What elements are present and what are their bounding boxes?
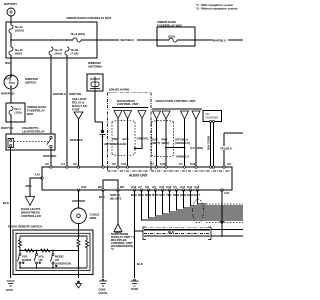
svg-text:(AUDIO/CH): (AUDIO/CH) bbox=[55, 262, 71, 266]
svg-text:(BLU) *2: (BLU) *2 bbox=[110, 197, 122, 201]
svg-text:CONTROLLER: CONTROLLER bbox=[21, 214, 42, 218]
svg-text:RED: RED bbox=[26, 184, 32, 188]
svg-text:*2: *2 bbox=[111, 247, 114, 251]
svg-text:A15: A15 bbox=[159, 185, 165, 189]
svg-text:DOWN: DOWN bbox=[22, 258, 31, 262]
svg-text:C16: C16 bbox=[160, 162, 166, 166]
svg-text:C4: C4 bbox=[150, 162, 154, 166]
svg-text:SWITCH: SWITCH bbox=[25, 81, 36, 85]
svg-text:BATTERY: BATTERY bbox=[4, 2, 17, 6]
svg-text:(20A): (20A) bbox=[55, 52, 62, 56]
svg-text:A7: A7 bbox=[138, 185, 142, 189]
svg-text:(BLU): (BLU) bbox=[162, 141, 170, 145]
svg-text:RADIO REMOTE SWITCH: RADIO REMOTE SWITCH bbox=[8, 225, 42, 229]
svg-text:A4: A4 bbox=[61, 162, 65, 166]
svg-text:A9: A9 bbox=[152, 185, 156, 189]
svg-text:No.9 (50A): No.9 (50A) bbox=[71, 32, 85, 36]
svg-text:A15: A15 bbox=[224, 191, 230, 195]
svg-text:(50A): (50A) bbox=[15, 52, 22, 56]
svg-text:A8: A8 bbox=[227, 162, 231, 166]
svg-text:CONTROL UNIT: CONTROL UNIT bbox=[117, 102, 139, 106]
svg-text:WHT/RED: WHT/RED bbox=[43, 154, 56, 158]
svg-text:C8: C8 bbox=[112, 162, 116, 166]
svg-text:A2: A2 bbox=[73, 162, 77, 166]
svg-text:DIN CORD: DIN CORD bbox=[206, 136, 210, 150]
svg-text:GRN/YEL: GRN/YEL bbox=[137, 137, 150, 141]
svg-text:YEL/BLU: YEL/BLU bbox=[220, 147, 232, 151]
svg-text:A10: A10 bbox=[35, 173, 41, 177]
svg-text:FUSE: FUSE bbox=[72, 108, 80, 112]
svg-text:A13: A13 bbox=[131, 185, 137, 189]
svg-text:ANTENNA: ANTENNA bbox=[88, 65, 103, 69]
svg-text:(100A): (100A) bbox=[15, 29, 24, 33]
svg-text:BLK: BLK bbox=[3, 201, 10, 205]
svg-text:C7: C7 bbox=[179, 162, 183, 166]
svg-text:BLK: BLK bbox=[137, 262, 144, 266]
svg-text:(LT GRN): (LT GRN) bbox=[191, 146, 203, 150]
svg-text:(15A): (15A) bbox=[15, 111, 22, 115]
svg-text:B6: B6 bbox=[98, 185, 102, 189]
svg-text:(GRN/BLU): (GRN/BLU) bbox=[175, 141, 190, 145]
svg-text:C10: C10 bbox=[121, 162, 127, 166]
svg-text:WHT: WHT bbox=[5, 61, 12, 65]
svg-text:LIGHTER RELAY: LIGHTER RELAY bbox=[22, 130, 45, 134]
svg-text:A18: A18 bbox=[194, 185, 200, 189]
svg-text:*2 : Without navigation system: *2 : Without navigation system bbox=[196, 7, 238, 11]
svg-text:CHANGER: CHANGER bbox=[206, 117, 219, 120]
svg-text:(PASSENGER'S): (PASSENGER'S) bbox=[111, 244, 133, 248]
svg-text:C13: C13 bbox=[190, 162, 196, 166]
svg-text:RED/BLK: RED/BLK bbox=[70, 138, 84, 142]
svg-text:AUDIO UNIT: AUDIO UNIT bbox=[129, 174, 148, 178]
svg-text:WHT/BLU: WHT/BLU bbox=[53, 92, 66, 96]
svg-text:WHT/BLU: WHT/BLU bbox=[213, 39, 226, 43]
svg-text:G501: G501 bbox=[6, 288, 13, 292]
svg-text:BLU: BLU bbox=[138, 193, 144, 197]
svg-text:GRN/BLU: GRN/BLU bbox=[176, 155, 189, 159]
svg-text:WHT/BLK: WHT/BLK bbox=[121, 38, 135, 42]
svg-text:BLU: BLU bbox=[123, 137, 129, 141]
svg-text:RED: RED bbox=[113, 137, 119, 141]
svg-text:UP: UP bbox=[39, 258, 43, 262]
svg-text:B8: B8 bbox=[120, 185, 124, 189]
svg-text:NAVIGATION CONTROL UNIT: NAVIGATION CONTROL UNIT bbox=[156, 99, 196, 103]
svg-text:A16: A16 bbox=[166, 185, 172, 189]
svg-text:BOX: BOX bbox=[27, 112, 33, 116]
svg-text:(WHT): (WHT) bbox=[152, 141, 160, 145]
svg-text:A8: A8 bbox=[145, 185, 149, 189]
svg-text:A14: A14 bbox=[187, 185, 193, 189]
svg-text:WHT/YEL: WHT/YEL bbox=[1, 126, 14, 130]
svg-text:WHT/RED: WHT/RED bbox=[1, 92, 14, 96]
svg-text:A5: A5 bbox=[173, 185, 177, 189]
svg-text:WHT/YEL: WHT/YEL bbox=[69, 92, 82, 96]
svg-text:BLK: BLK bbox=[99, 195, 106, 199]
svg-text:G503: G503 bbox=[131, 287, 138, 291]
svg-text:A6: A6 bbox=[45, 162, 49, 166]
svg-text:A17: A17 bbox=[180, 185, 186, 189]
svg-text:A19: A19 bbox=[81, 185, 87, 189]
svg-text:(ON-BD HARN): (ON-BD HARN) bbox=[109, 88, 129, 92]
svg-text:YEL: YEL bbox=[166, 193, 172, 197]
svg-text:UNDER-HOOD FUSE/RELAY BOX: UNDER-HOOD FUSE/RELAY BOX bbox=[66, 16, 111, 20]
svg-text:(7.5A): (7.5A) bbox=[71, 52, 79, 56]
svg-text:(G401): (G401) bbox=[99, 291, 108, 295]
svg-text:REEL: REEL bbox=[90, 216, 98, 220]
